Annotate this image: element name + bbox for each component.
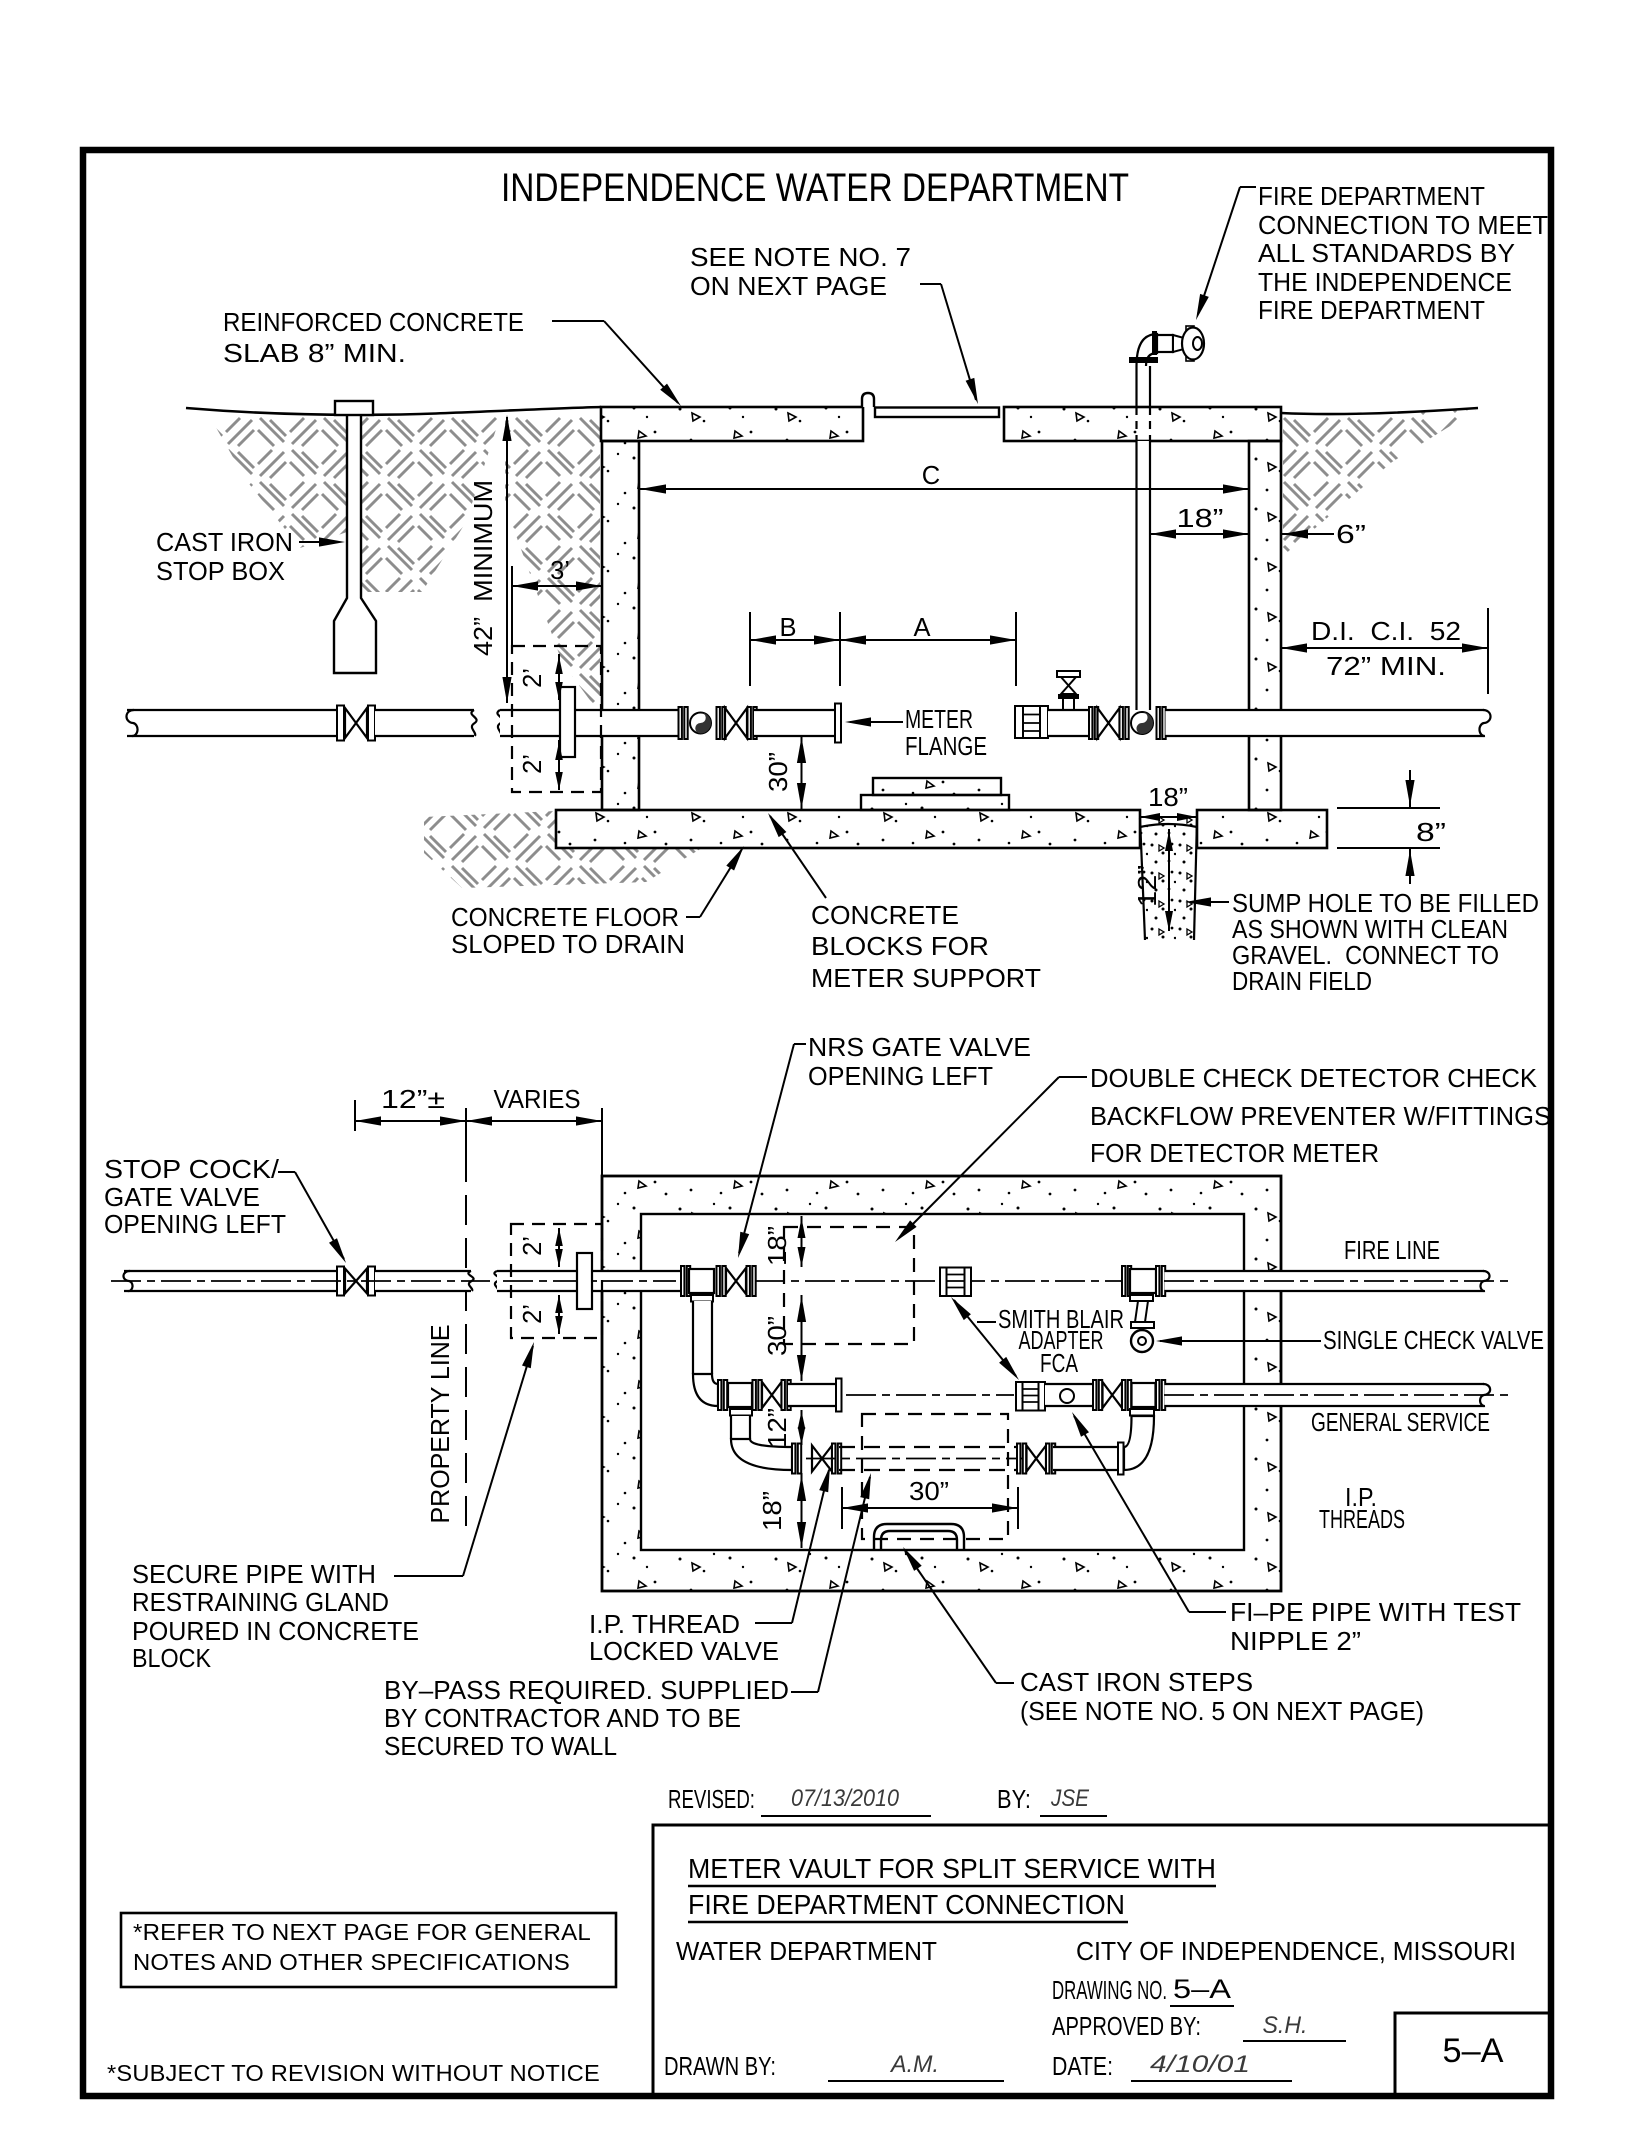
svg-text:SLAB 8” MIN.: SLAB 8” MIN. bbox=[223, 340, 406, 368]
smith blair adapter on fire line bbox=[940, 1268, 947, 1297]
dimension 12in sump depth bbox=[1168, 829, 1170, 931]
svg-text:FCA: FCA bbox=[1040, 1350, 1078, 1378]
svg-text:I.P. THREAD: I.P. THREAD bbox=[589, 1611, 740, 1639]
svg-text:2’: 2’ bbox=[519, 668, 547, 688]
svg-text:METER: METER bbox=[905, 706, 973, 734]
supply pipe left segment bbox=[127, 710, 337, 736]
svg-text:GENERAL SERVICE: GENERAL SERVICE bbox=[1311, 1409, 1490, 1437]
svg-text:AS SHOWN WITH CLEAN: AS SHOWN WITH CLEAN bbox=[1232, 916, 1508, 944]
svg-text:A.M.: A.M. bbox=[889, 2051, 939, 2078]
fire line centerline to adapter bbox=[755, 1280, 1126, 1282]
svg-text:3’: 3’ bbox=[550, 557, 570, 585]
pipe end cap right bbox=[1479, 710, 1490, 736]
general service pipe exiting right bbox=[1165, 1384, 1485, 1406]
supply pipe into vault (plan) bbox=[497, 1271, 681, 1291]
vault top slab right segment bbox=[1004, 407, 1281, 441]
manhole cover plate bbox=[875, 408, 999, 418]
svg-text:ON NEXT PAGE: ON NEXT PAGE bbox=[690, 273, 887, 301]
svg-text:APPROVED BY:: APPROVED BY: bbox=[1052, 2013, 1201, 2041]
dimension 42in minimum bbox=[506, 417, 508, 703]
ground surface line bbox=[186, 407, 601, 415]
svg-text:12”: 12” bbox=[764, 1408, 792, 1448]
FDC elbow bbox=[1137, 334, 1158, 366]
elbow to bypass run bbox=[731, 1439, 792, 1470]
vault interior bbox=[641, 1214, 1244, 1550]
supply pipe through wall into vault bbox=[500, 710, 679, 736]
tee at supply/fire line bbox=[681, 1266, 684, 1296]
svg-text:OPENING LEFT: OPENING LEFT bbox=[808, 1063, 993, 1091]
svg-text:5–A: 5–A bbox=[1443, 2032, 1504, 2070]
dimension C bbox=[640, 488, 1249, 490]
svg-text:2’: 2’ bbox=[519, 754, 547, 774]
svg-text:CAST IRON: CAST IRON bbox=[156, 529, 293, 557]
svg-text:*REFER TO NEXT PAGE FOR GENERA: *REFER TO NEXT PAGE FOR GENERAL bbox=[133, 1919, 591, 1945]
svg-text:METER SUPPORT: METER SUPPORT bbox=[811, 965, 1041, 993]
restraining gland block on pipe bbox=[560, 687, 575, 757]
svg-text:(SEE NOTE NO. 5 ON NEXT PAGE): (SEE NOTE NO. 5 ON NEXT PAGE) bbox=[1020, 1698, 1424, 1726]
tee with bypass branch bbox=[728, 1383, 752, 1407]
svg-text:8”: 8” bbox=[1416, 819, 1446, 847]
gate valve on general service bbox=[762, 1382, 782, 1408]
svg-text:SEE NOTE NO. 7: SEE NOTE NO. 7 bbox=[690, 244, 911, 272]
svg-text:FIRE DEPARTMENT: FIRE DEPARTMENT bbox=[1258, 183, 1485, 211]
meter flange bbox=[835, 704, 841, 743]
spool with operating stem bbox=[1048, 710, 1089, 736]
svg-text:INDEPENDENCE WATER DEPARTMENT: INDEPENDENCE WATER DEPARTMENT bbox=[501, 166, 1129, 210]
vault left wall bbox=[602, 441, 639, 810]
svg-text:NOTES AND OTHER SPECIFICATIONS: NOTES AND OTHER SPECIFICATIONS bbox=[133, 1949, 570, 1975]
soil hatch right of stop box bbox=[361, 417, 500, 592]
bypass left flanges bbox=[792, 1444, 795, 1474]
FCA adapter on general service bbox=[1016, 1382, 1023, 1411]
svg-text:CONCRETE: CONCRETE bbox=[811, 902, 959, 930]
meter setter left: flange pair bbox=[679, 707, 682, 739]
dim 18in bottom (plan) bbox=[801, 1473, 803, 1548]
svg-text:WATER DEPARTMENT: WATER DEPARTMENT bbox=[676, 1938, 937, 1966]
svg-text:FIRE DEPARTMENT: FIRE DEPARTMENT bbox=[1258, 297, 1485, 325]
soil hatch between stop box and vault left wall bbox=[505, 417, 600, 714]
bypass right valve bbox=[1027, 1446, 1047, 1472]
manhole curb lip bbox=[862, 393, 874, 407]
service pipe exiting right bbox=[1166, 710, 1485, 736]
gate valve on supply (section) bbox=[337, 706, 344, 741]
dim 12in (plan) bbox=[801, 1410, 803, 1445]
meter (yin-yang) right bbox=[1131, 712, 1153, 734]
dimension 12in plusminus bbox=[354, 1100, 356, 1131]
centerline supply bbox=[111, 1280, 490, 1282]
IP thread locked valve bbox=[812, 1446, 832, 1472]
dimension 2ft above (plan) bbox=[558, 1228, 560, 1267]
svg-text:72” MIN.: 72” MIN. bbox=[1326, 653, 1446, 681]
soil hatch left of stop box bbox=[210, 417, 347, 548]
svg-text:30”: 30” bbox=[764, 1316, 792, 1356]
dimension 30in pipe height bbox=[801, 736, 803, 809]
cast iron stop box bbox=[334, 415, 376, 673]
svg-text:METER VAULT FOR SPLIT SERVICE: METER VAULT FOR SPLIT SERVICE WITH bbox=[688, 1853, 1216, 1884]
restraining gland (plan) bbox=[577, 1253, 592, 1309]
elbow up to general service tee bbox=[1124, 1416, 1154, 1470]
svg-text:18”: 18” bbox=[1177, 505, 1224, 533]
svg-text:DRAWING NO.: DRAWING NO. bbox=[1052, 1977, 1167, 2005]
svg-text:12”±: 12”± bbox=[381, 1086, 445, 1114]
svg-text:A: A bbox=[913, 614, 930, 642]
svg-text:C: C bbox=[922, 462, 940, 490]
svg-text:FOR DETECTOR METER: FOR DETECTOR METER bbox=[1090, 1140, 1379, 1168]
bypass pipe to right elbow bbox=[1053, 1447, 1118, 1470]
svg-text:SUMP HOLE TO BE FILLED: SUMP HOLE TO BE FILLED bbox=[1232, 890, 1539, 918]
general service run left flange bbox=[718, 1380, 721, 1410]
svg-text:CAST IRON STEPS: CAST IRON STEPS bbox=[1020, 1669, 1253, 1697]
gate valve left of meter flange bbox=[725, 708, 747, 738]
svg-text:FLANGE: FLANGE bbox=[905, 733, 987, 761]
svg-text:DOUBLE CHECK DETECTOR CHECK: DOUBLE CHECK DETECTOR CHECK bbox=[1090, 1065, 1537, 1093]
vault top slab left segment bbox=[601, 407, 863, 441]
svg-text:RESTRAINING GLAND: RESTRAINING GLAND bbox=[132, 1589, 389, 1617]
svg-text:BY:: BY: bbox=[997, 1786, 1031, 1814]
svg-text:CITY OF INDEPENDENCE, MISSOURI: CITY OF INDEPENDENCE, MISSOURI bbox=[1076, 1938, 1516, 1966]
sheet number box 5-A bbox=[1395, 2013, 1552, 2096]
soil hatch right of vault bbox=[1283, 410, 1476, 556]
svg-text:THREADS: THREADS bbox=[1319, 1506, 1405, 1534]
svg-text:FI–PE PIPE WITH TEST: FI–PE PIPE WITH TEST bbox=[1230, 1599, 1521, 1627]
dimension 2ft above pipe bbox=[558, 654, 560, 700]
property line bbox=[465, 1108, 467, 1152]
svg-text:BY CONTRACTOR AND TO BE: BY CONTRACTOR AND TO BE bbox=[384, 1705, 741, 1733]
riser from gs tee down bbox=[731, 1416, 750, 1439]
svg-text:NIPPLE 2”: NIPPLE 2” bbox=[1230, 1628, 1361, 1656]
svg-text:D.I. C.I. 52: D.I. C.I. 52 bbox=[1311, 618, 1461, 646]
fire line pipe exiting right bbox=[1165, 1271, 1485, 1291]
dashed 2ft box (plan) bbox=[511, 1224, 602, 1338]
dimension 3ft bbox=[511, 566, 513, 645]
dimension 6in wall bbox=[1282, 533, 1334, 535]
title block box bbox=[653, 1825, 1552, 2096]
vault outer wall (plan) bbox=[602, 1176, 1281, 1591]
svg-text:18”: 18” bbox=[759, 1491, 787, 1531]
svg-text:12”: 12” bbox=[1134, 865, 1162, 907]
svg-text:*SUBJECT TO REVISION WITHOUT N: *SUBJECT TO REVISION WITHOUT NOTICE bbox=[107, 2060, 600, 2086]
valve stem and handle bbox=[1062, 699, 1064, 710]
FDC barrel and snout bbox=[1157, 335, 1173, 352]
svg-text:30”: 30” bbox=[909, 1478, 949, 1506]
centerline supply into vault bbox=[503, 1280, 676, 1282]
cast iron steps handle bbox=[874, 1524, 964, 1551]
sump hole with gravel bbox=[1140, 818, 1197, 940]
dashed box 30in bypass clearance bbox=[862, 1414, 1008, 1539]
svg-text:CONNECTION TO MEET: CONNECTION TO MEET bbox=[1258, 212, 1548, 240]
dimension 8in floor bbox=[1337, 807, 1440, 809]
svg-text:BLOCKS FOR: BLOCKS FOR bbox=[811, 933, 989, 961]
svg-text:18”: 18” bbox=[764, 1226, 792, 1266]
svg-text:2’: 2’ bbox=[519, 1304, 547, 1324]
dimension 18in wall offset bbox=[1150, 533, 1249, 535]
svg-text:5–A: 5–A bbox=[1173, 1974, 1231, 2004]
svg-text:42” MINIMUM: 42” MINIMUM bbox=[470, 480, 498, 656]
gate valve right (general service) bbox=[1103, 1382, 1123, 1408]
dashed box double check detector bbox=[784, 1227, 914, 1344]
dim 18in top (plan) bbox=[801, 1216, 803, 1267]
svg-text:STOP COCK/: STOP COCK/ bbox=[104, 1156, 280, 1184]
refer to next page box bbox=[121, 1913, 616, 1987]
svg-text:THE INDEPENDENCE: THE INDEPENDENCE bbox=[1258, 269, 1512, 297]
vault floor slab right of sump bbox=[1197, 810, 1327, 848]
single check valve (circle) bbox=[1131, 1330, 1153, 1352]
concrete blocks for meter support bbox=[873, 778, 1001, 795]
detector jog to single check bbox=[1130, 1295, 1153, 1301]
svg-text:GRAVEL. CONNECT TO: GRAVEL. CONNECT TO bbox=[1232, 942, 1499, 970]
fire line riser dashed through slab bbox=[1135, 407, 1137, 441]
supply pipe to break bbox=[375, 710, 474, 736]
dim 30in horizontal (plan) bbox=[841, 1487, 843, 1529]
svg-text:B: B bbox=[779, 614, 796, 642]
svg-text:SLOPED TO DRAIN: SLOPED TO DRAIN bbox=[451, 931, 685, 959]
svg-text:SINGLE CHECK VALVE: SINGLE CHECK VALVE bbox=[1323, 1327, 1544, 1355]
dimension 2ft below pipe bbox=[558, 740, 560, 790]
svg-text:REVISED:: REVISED: bbox=[668, 1786, 755, 1814]
vault right wall bbox=[1249, 441, 1281, 810]
svg-text:SECURED TO WALL: SECURED TO WALL bbox=[384, 1733, 617, 1761]
svg-text:6”: 6” bbox=[1336, 521, 1366, 549]
svg-text:FIRE LINE: FIRE LINE bbox=[1344, 1237, 1440, 1265]
svg-text:S.H.: S.H. bbox=[1263, 2012, 1308, 2039]
detector tee on fire line bbox=[1122, 1266, 1125, 1296]
svg-text:4/10/01: 4/10/01 bbox=[1150, 2051, 1250, 2078]
flanged coupling adapter (right) bbox=[1015, 706, 1023, 738]
fire line riser (solid below slab) bbox=[1137, 441, 1151, 710]
svg-text:NRS GATE VALVE: NRS GATE VALVE bbox=[808, 1034, 1031, 1062]
meter (yin-yang) left bbox=[690, 713, 711, 734]
svg-text:OPENING LEFT: OPENING LEFT bbox=[104, 1211, 286, 1239]
FI-PE test nipple circle bbox=[1060, 1389, 1074, 1403]
vault floor slab left of sump bbox=[556, 810, 1140, 848]
svg-text:REINFORCED CONCRETE: REINFORCED CONCRETE bbox=[223, 309, 524, 337]
elbow to general service run bbox=[693, 1374, 718, 1406]
pipe break symbols bbox=[471, 710, 476, 736]
svg-text:DRAWN BY:: DRAWN BY: bbox=[664, 2053, 776, 2081]
svg-text:CONCRETE FLOOR: CONCRETE FLOOR bbox=[451, 904, 679, 932]
centerline general service bbox=[846, 1394, 1014, 1396]
svg-text:07/13/2010: 07/13/2010 bbox=[791, 1785, 900, 1812]
tee to bypass elbow bbox=[1132, 1383, 1156, 1407]
svg-text:GATE VALVE: GATE VALVE bbox=[104, 1184, 260, 1212]
svg-text:30”: 30” bbox=[765, 752, 793, 792]
riser from tee (plan) bbox=[693, 1301, 712, 1374]
spool to meter flange bbox=[754, 710, 835, 736]
spool to end flange bbox=[788, 1384, 836, 1406]
pipe end cap left bbox=[126, 710, 137, 736]
dashed 2ft encasement box (section) bbox=[512, 646, 601, 792]
dimension B bbox=[749, 612, 751, 686]
svg-text:2’: 2’ bbox=[519, 1236, 547, 1256]
svg-text:DRAIN FIELD: DRAIN FIELD bbox=[1232, 968, 1372, 996]
svg-text:FIRE DEPARTMENT CONNECTION: FIRE DEPARTMENT CONNECTION bbox=[688, 1889, 1125, 1920]
svg-text:PROPERTY LINE: PROPERTY LINE bbox=[427, 1325, 455, 1524]
svg-text:VARIES: VARIES bbox=[494, 1086, 581, 1114]
svg-text:18”: 18” bbox=[1148, 784, 1188, 812]
dimension A bbox=[1015, 612, 1017, 686]
svg-text:JSE: JSE bbox=[1050, 1785, 1090, 1812]
fire line riser above grade bbox=[1135, 366, 1137, 407]
gate valve right assembly bbox=[1089, 707, 1092, 739]
svg-text:POURED IN CONCRETE: POURED IN CONCRETE bbox=[132, 1618, 419, 1646]
supply pipe (plan) bbox=[124, 1271, 337, 1291]
NRS gate valve (plan) bbox=[726, 1268, 746, 1294]
svg-text:STOP BOX: STOP BOX bbox=[156, 558, 285, 586]
svg-text:BLOCK: BLOCK bbox=[132, 1645, 211, 1673]
svg-text:BY–PASS REQUIRED. SUPPLIED: BY–PASS REQUIRED. SUPPLIED bbox=[384, 1677, 789, 1705]
spool with test nipple circle bbox=[1045, 1384, 1093, 1406]
svg-text:LOCKED VALVE: LOCKED VALVE bbox=[589, 1638, 779, 1666]
svg-text:DATE:: DATE: bbox=[1052, 2053, 1113, 2081]
soil hatch below floor left bbox=[424, 811, 702, 888]
dimension 2ft below (plan) bbox=[558, 1295, 560, 1334]
stop cock gate valve (plan) bbox=[337, 1267, 344, 1296]
bypass dashed pipe (by contractor) bbox=[839, 1446, 1017, 1448]
svg-text:ALL STANDARDS BY: ALL STANDARDS BY bbox=[1258, 240, 1515, 268]
svg-text:BACKFLOW PREVENTER W/FITTINGS: BACKFLOW PREVENTER W/FITTINGS bbox=[1090, 1103, 1551, 1131]
dim 30in (plan) bbox=[801, 1295, 803, 1381]
svg-text:SECURE PIPE WITH: SECURE PIPE WITH bbox=[132, 1561, 376, 1589]
